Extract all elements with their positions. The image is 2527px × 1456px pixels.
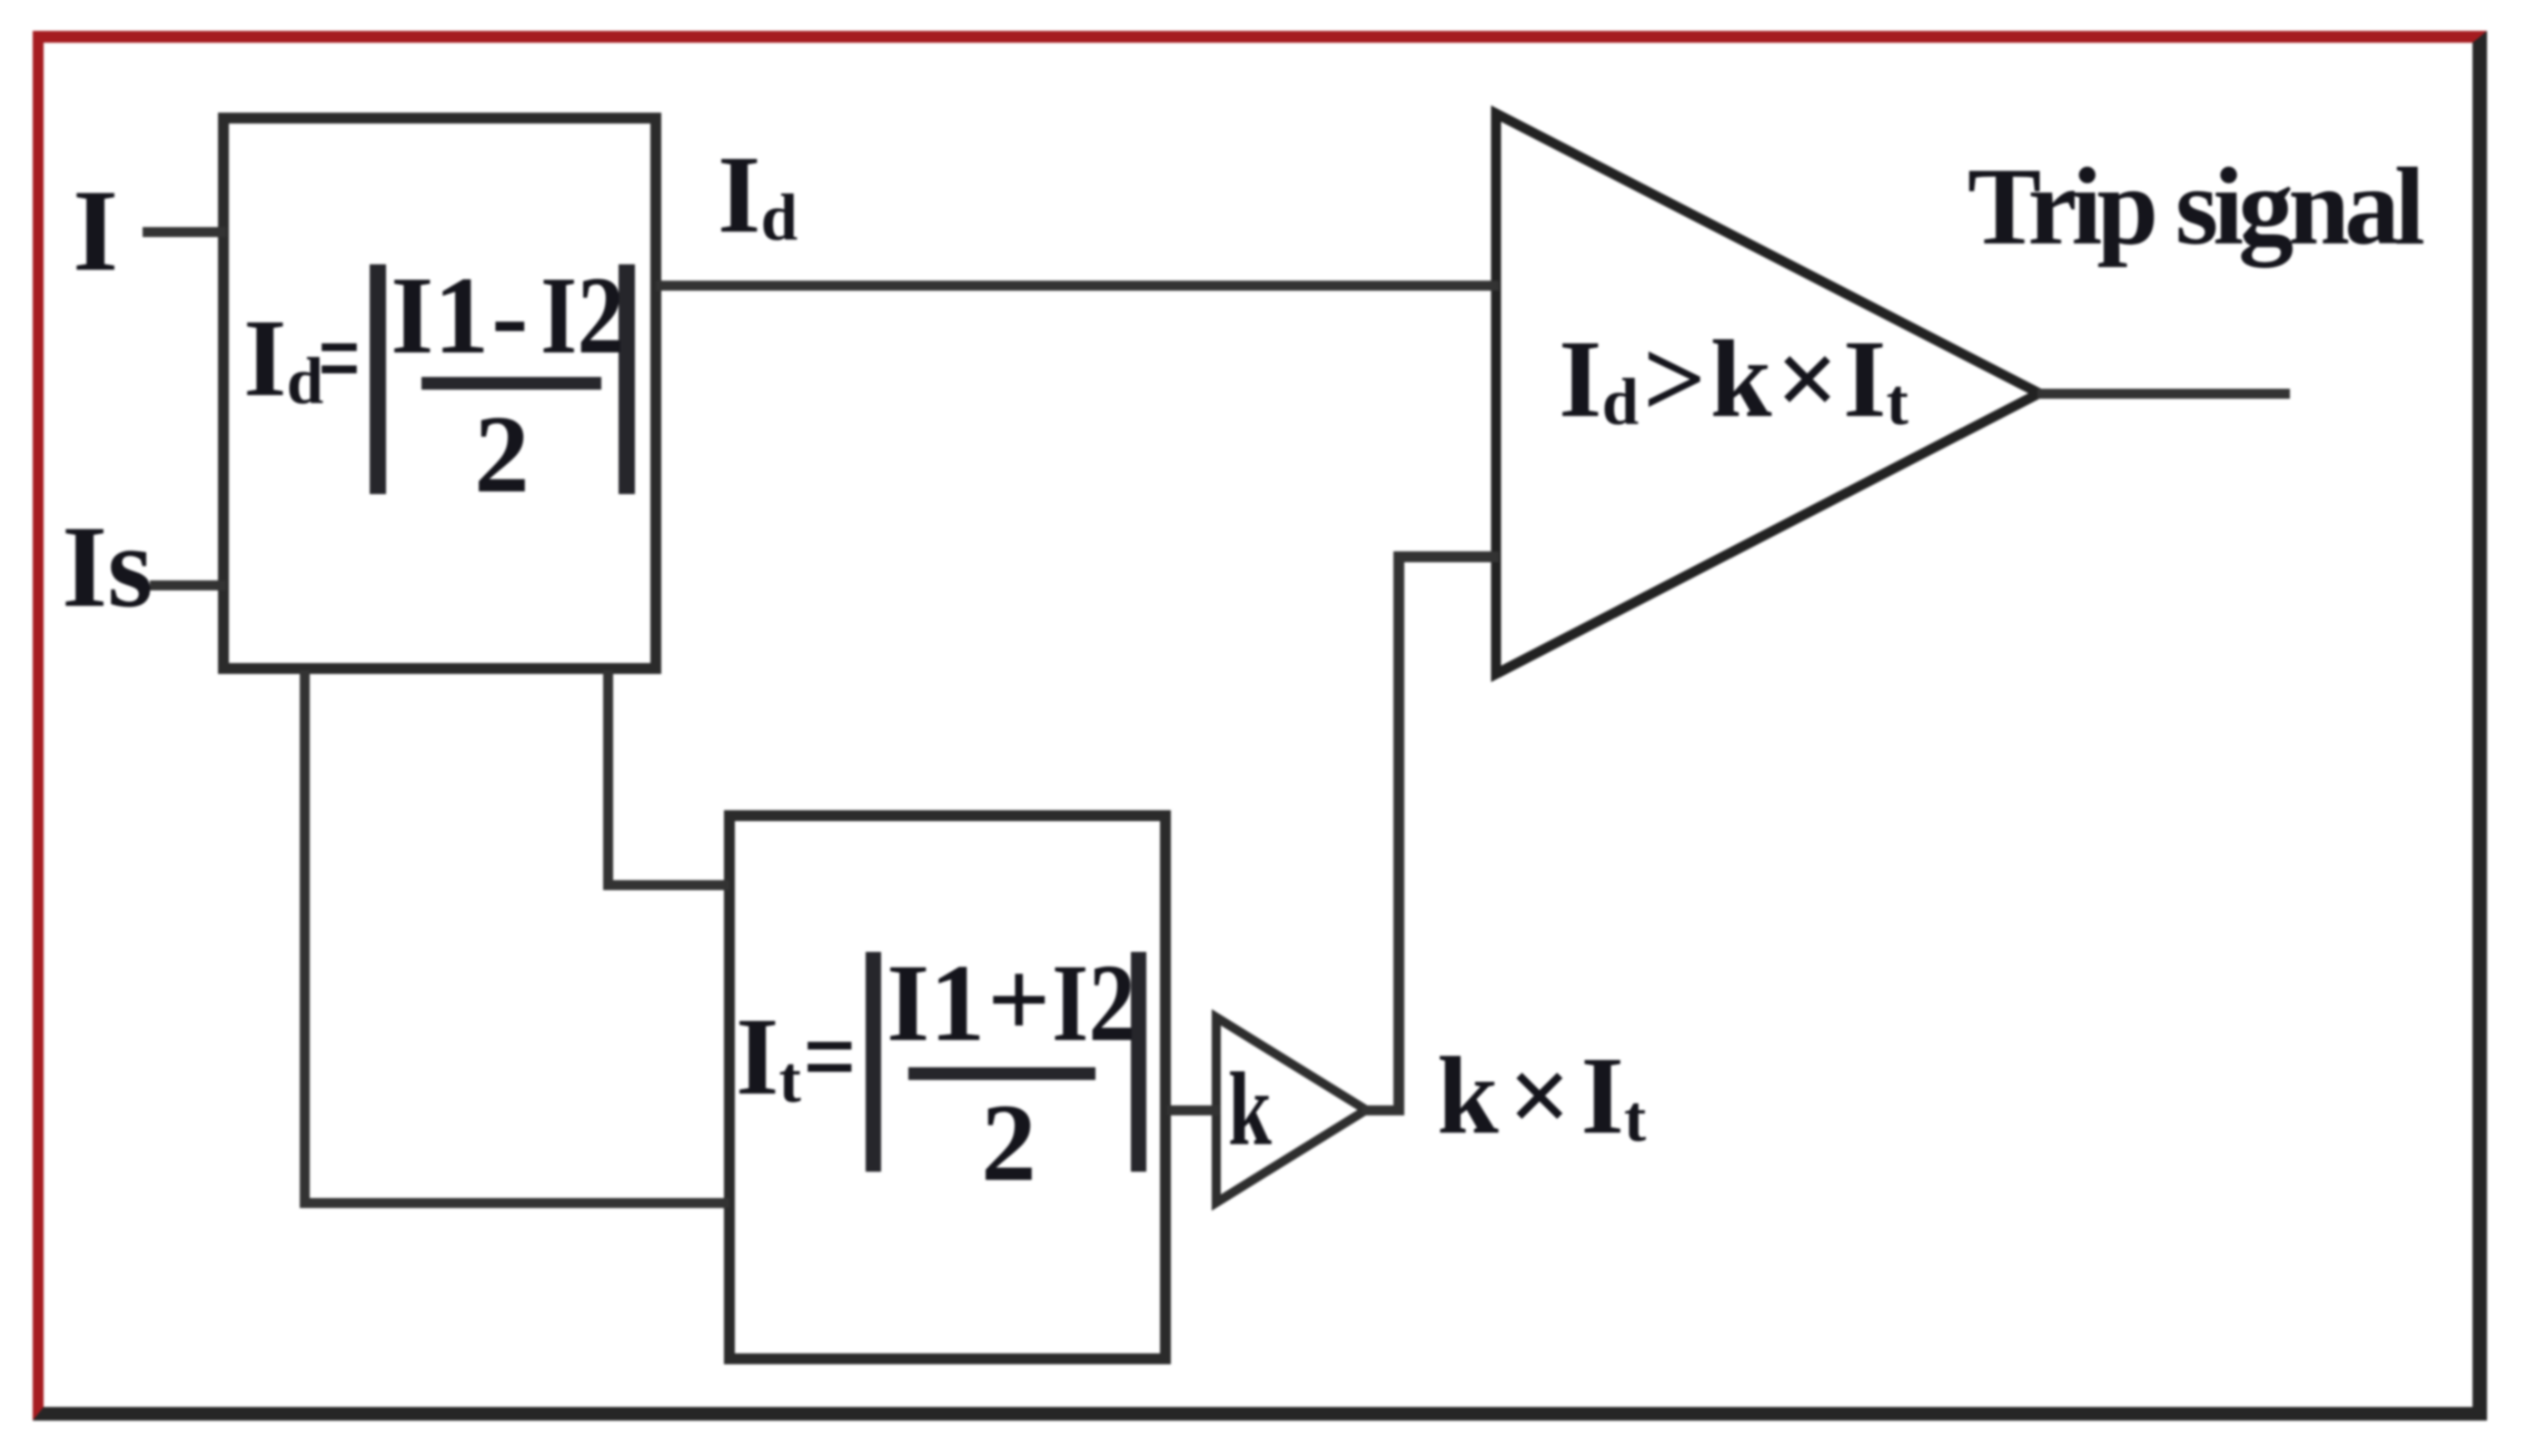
- comparator triangle U1 (Id > k x It): [1496, 114, 2039, 674]
- wire: input Is: [150, 580, 226, 590]
- formula: Id = |(I1-I2)/2|: [243, 303, 323, 414]
- label: comparator condition: [1559, 324, 1908, 435]
- wire: k tip to vertical: [1363, 1105, 1399, 1115]
- block: Id calculation box: [218, 113, 661, 674]
- wire: comparator output: [2037, 389, 2290, 399]
- wire: horizontal to It box (upper): [603, 880, 729, 890]
- label: node Id: [718, 140, 798, 251]
- label: k times It: [1437, 1041, 1646, 1152]
- wire: input I: [143, 227, 226, 237]
- wire: k output vertical: [1393, 551, 1404, 1115]
- label: input I: [73, 172, 118, 289]
- label: Trip signal: [1967, 152, 2420, 262]
- wire: Id to comparator: [656, 281, 1499, 291]
- wire: horizontal to It box (lower): [300, 1198, 729, 1208]
- wire: comparator second input horizontal: [1393, 551, 1499, 562]
- formula: It = |(I1+I2)/2|: [736, 1002, 801, 1113]
- gain amplifier triangle k: [1216, 1017, 1366, 1203]
- label: input Is: [62, 508, 153, 625]
- label: k gain: [1228, 1057, 1272, 1162]
- block: It calculation box: [724, 810, 1171, 1364]
- wire: It box to k triangle: [1167, 1105, 1220, 1115]
- wire: Id box bottom right vertical: [603, 670, 613, 890]
- wire: Id box bottom left vertical: [300, 670, 310, 1208]
